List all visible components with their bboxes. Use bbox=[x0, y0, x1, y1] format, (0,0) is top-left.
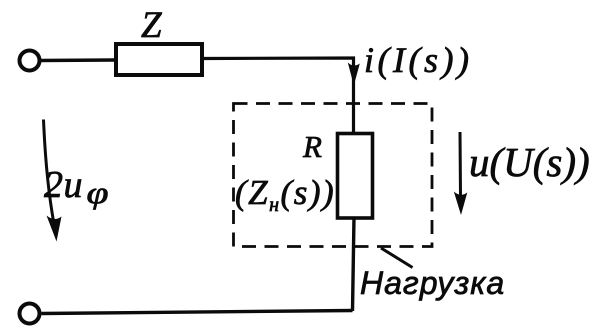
svg-text:Z: Z bbox=[141, 5, 162, 46]
svg-text:φ: φ bbox=[87, 175, 109, 210]
svg-text:Нагрузка: Нагрузка bbox=[360, 265, 505, 301]
svg-text:(Zн(s)): (Zн(s)) bbox=[235, 173, 335, 216]
svg-text:2u: 2u bbox=[44, 164, 83, 206]
svg-text:u(U(s)): u(U(s)) bbox=[469, 139, 590, 185]
svg-text:R: R bbox=[302, 129, 322, 164]
svg-text:i(I(s)): i(I(s)) bbox=[364, 40, 472, 80]
